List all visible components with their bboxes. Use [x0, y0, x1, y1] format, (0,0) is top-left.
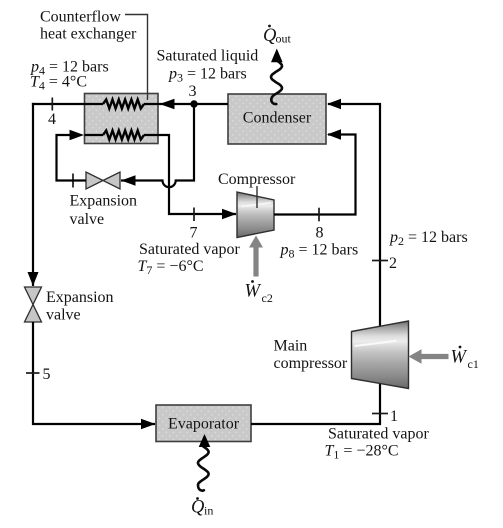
- svg-text:in: in: [204, 504, 213, 518]
- svg-text:valve: valve: [46, 307, 81, 324]
- wire: upper valve out, up, into HX bottom coil: [57, 135, 87, 181]
- svg-text:heat exchanger: heat exchanger: [40, 26, 137, 43]
- svg-text:W: W: [451, 348, 468, 368]
- condenser box: [228, 94, 326, 144]
- evaporator box: [156, 405, 251, 442]
- node 3 junction dot: [190, 100, 197, 107]
- Qout arrowhead: [271, 49, 283, 63]
- arrowhead into compressor: [222, 209, 237, 219]
- wire: HX bottom coil exit down to node 7 and compressor: [144, 135, 236, 214]
- wire: valve to evaporator: [33, 322, 155, 424]
- svg-text:3: 3: [189, 83, 197, 100]
- tick left of upper valve: [72, 174, 74, 188]
- Qin arrowhead: [199, 434, 211, 447]
- svg-text:c1: c1: [468, 357, 479, 371]
- arrowhead into HX top coil: [160, 99, 175, 109]
- svg-text:Evaporator: Evaporator: [168, 416, 240, 433]
- compressor C2 body: [237, 192, 274, 238]
- arrowhead into evaporator: [141, 419, 156, 429]
- node 2 tick: [372, 260, 388, 262]
- wire: left vertical from node 4 corner down to expansion valve: [32, 103, 34, 286]
- Wc1 gray arrow: [422, 354, 449, 359]
- svg-text:W: W: [245, 282, 262, 302]
- svg-text:compressor: compressor: [274, 355, 348, 372]
- heat exchanger box: [85, 94, 159, 144]
- upper expansion valve: [86, 172, 103, 189]
- wire: main compressor up to condenser, node 2: [328, 104, 380, 326]
- arrowhead into condenser lower right: [327, 129, 341, 139]
- arrowhead into condenser upper right: [327, 99, 341, 109]
- compressor label leader: [256, 186, 258, 208]
- node 8 tick: [318, 208, 320, 222]
- node 5 tick: [26, 372, 40, 374]
- arrowhead into HX bottom coil: [70, 130, 85, 140]
- Qin squiggle: [198, 447, 209, 491]
- main compressor body: [352, 321, 409, 389]
- svg-text:1: 1: [390, 408, 398, 425]
- Qout squiggle: [271, 61, 282, 105]
- svg-text:Saturated vapor: Saturated vapor: [139, 241, 241, 258]
- main compressor highlight: [355, 341, 397, 346]
- svg-text:5: 5: [43, 366, 51, 383]
- wire: node4 to condenser through HX top: [32, 103, 228, 105]
- Wc2 gray arrow: [253, 248, 258, 277]
- svg-text:Expansion: Expansion: [46, 289, 114, 306]
- wire: through HX bottom coil: [85, 134, 104, 136]
- HX bottom coil: [103, 131, 144, 140]
- HX top coil: [103, 100, 144, 109]
- svg-text:Condenser: Condenser: [243, 110, 312, 127]
- counterflow HX leader line: [125, 15, 148, 101]
- svg-text:7: 7: [190, 225, 198, 242]
- svg-text:T4 = 4°C: T4 = 4°C: [30, 74, 87, 93]
- compressor C2 highlight: [242, 203, 272, 207]
- node 1 tick: [372, 413, 388, 415]
- svg-text:out: out: [276, 32, 292, 46]
- node 4 tick: [51, 98, 53, 111]
- svg-text:Main: Main: [274, 338, 308, 355]
- svg-text:Expansion: Expansion: [70, 193, 138, 210]
- svg-text:4: 4: [48, 111, 56, 128]
- svg-text:Counterflow: Counterflow: [40, 9, 121, 26]
- wire: node 3 down and left to upper expansion valve with hop: [121, 104, 194, 187]
- svg-text:8: 8: [316, 225, 324, 242]
- svg-text:Compressor: Compressor: [218, 171, 296, 188]
- svg-text:Saturated vapor: Saturated vapor: [328, 426, 430, 443]
- wire: evaporator to main compressor, node 1: [251, 384, 380, 424]
- node 7 tick: [193, 208, 195, 222]
- svg-text:c2: c2: [262, 291, 273, 305]
- arrowhead down into lower expansion valve: [28, 272, 39, 286]
- svg-text:valve: valve: [70, 211, 105, 228]
- svg-text:Saturated liquid: Saturated liquid: [157, 48, 259, 65]
- wire: compressor C2 to condenser lower arrow, node 8: [274, 135, 356, 215]
- arrowhead into upper expansion valve: [121, 175, 136, 185]
- svg-text:2: 2: [389, 255, 397, 272]
- lower expansion valve: [25, 287, 42, 305]
- svg-text:Q: Q: [191, 498, 205, 518]
